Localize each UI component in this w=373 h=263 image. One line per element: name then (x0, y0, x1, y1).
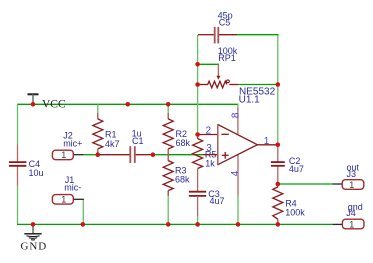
junction R2 top on VCC rail (166, 102, 171, 107)
wire J1 vertical to GND rail (82, 199, 84, 224)
junction RP1 right / feedback (276, 82, 281, 87)
wire left vertical upper (VCC rail to C4) (17, 104, 19, 145)
svg-text:mic+: mic+ (63, 139, 82, 149)
op-amp U1.1 minus sign (221, 133, 228, 135)
capacitor C2 bottom pin (277, 166, 279, 184)
resistor R5 zigzag (193, 139, 203, 169)
capacitor C2 top pin (277, 145, 279, 162)
connector J1 body (52, 195, 73, 205)
wire R2 top stub (167, 104, 169, 113)
svg-text:1: 1 (264, 136, 270, 147)
junction RP1 left (195, 82, 200, 87)
resistor R4 bottom pin (277, 219, 279, 224)
junction op-amp pin4 on GND rail (236, 222, 241, 227)
resistor R2 zigzag (163, 119, 173, 149)
power symbol VCC (28, 94, 39, 104)
resistor R3 bottom pin (167, 191, 169, 196)
junction C3 on GND rail (195, 222, 200, 227)
wire RP1 wiper horizontal (198, 63, 219, 65)
svg-text:1k: 1k (205, 159, 215, 169)
connector J1 pin line (73, 198, 84, 200)
svg-text:1: 1 (61, 195, 66, 205)
junction R3 on GND rail (166, 222, 171, 227)
svg-text:J3: J3 (347, 169, 357, 179)
wire output node to J3 (278, 183, 333, 185)
connector J2 pin line (73, 154, 83, 156)
capacitor C4 pin bottom (17, 166, 19, 185)
capacitor C1 left pin (98, 154, 129, 156)
wire op-amp pin4 to GND rail (237, 195, 239, 224)
wire VCC rail horizontal (17, 103, 238, 105)
capacitor C5 left pin (198, 34, 214, 36)
junction R4 on GND rail (276, 222, 281, 227)
svg-text:C1: C1 (132, 136, 144, 146)
svg-text:GND: GND (21, 241, 48, 253)
potentiometer RP1 wiper arrowhead (217, 76, 221, 80)
junction op-amp pin2 / R5 (195, 132, 200, 137)
op-amp U1.1 pin 3 line (203, 154, 218, 156)
op-amp U1.1 pin 4 line (237, 154, 239, 195)
potentiometer RP1 left pin (198, 84, 208, 86)
wire RP1 right to feedback (239, 84, 278, 86)
capacitor C1 plates (130, 146, 135, 163)
resistor R1 top pin (97, 113, 99, 119)
op-amp U1.1 pin 1 output line (257, 144, 277, 146)
potentiometer RP1 zigzag (208, 81, 227, 88)
resistor R2 top pin (167, 113, 169, 119)
op-amp U1.1 triangle left edge (217, 124, 219, 165)
potentiometer RP1 wiper arrow line (217, 64, 219, 76)
junction VCC symbol (31, 102, 36, 107)
op-amp U1.1 plus sign (222, 152, 229, 159)
svg-text:VCC: VCC (42, 99, 66, 111)
wire R2/R3 node to op-amp pin3 (168, 154, 203, 156)
svg-text:1: 1 (349, 180, 354, 190)
capacitor C4 pin top (17, 145, 19, 162)
wire J2 to R1 node (83, 154, 98, 156)
svg-text:U1.1: U1.1 (239, 94, 261, 105)
wire R1 top stub (97, 104, 99, 113)
resistor R3 zigzag (163, 161, 173, 191)
svg-text:RP1: RP1 (218, 53, 236, 63)
svg-text:68k: 68k (176, 138, 191, 148)
svg-text:C5: C5 (219, 18, 231, 28)
connector J3 pin line (333, 183, 343, 185)
svg-text:68k: 68k (175, 175, 190, 185)
wire feedback right vertical (C5/RP1 to output node) (277, 35, 279, 145)
junction J2 / R1 / C1 (96, 152, 101, 157)
wire pin8 top stub (237, 104, 239, 108)
junction C2 / R4 / J3 (276, 182, 281, 187)
svg-text:3: 3 (206, 143, 212, 154)
capacitor C2 plates (271, 162, 285, 166)
op-amp U1.1 pin 8 line (237, 108, 239, 135)
wire C5 right horizontal (237, 34, 279, 36)
op-amp U1.1 triangle body (218, 125, 258, 165)
svg-text:R1: R1 (105, 130, 117, 140)
svg-text:2: 2 (206, 126, 212, 137)
connector J2 body (52, 150, 73, 160)
resistor R1 zigzag (93, 119, 103, 149)
potentiometer RP1 wiper terminal circle (227, 80, 230, 83)
svg-text:4k7: 4k7 (105, 139, 120, 149)
resistor R2 bottom pin (167, 149, 169, 155)
svg-text:10u: 10u (29, 168, 44, 178)
potentiometer RP1 right pin (229, 84, 238, 86)
capacitor C4 plates (9, 162, 27, 166)
capacitor C5 plates (215, 27, 219, 44)
wire R3 bottom vertical (167, 192, 169, 225)
wire left vertical lower (C4 to GND rail) (17, 185, 19, 224)
op-amp U1.1 pin 2 line (198, 134, 218, 136)
capacitor C3 bottom pin (197, 196, 199, 216)
svg-text:mic-: mic- (64, 183, 81, 193)
junction output / feedback / C2 (276, 143, 281, 148)
junction RP1 wiper tap (195, 62, 200, 67)
ground symbol GND (24, 224, 41, 240)
junction on VCC rail (mid) (126, 102, 131, 107)
junction GND symbol (31, 222, 36, 227)
wire GND rail horizontal (17, 223, 333, 225)
svg-text:1: 1 (349, 219, 354, 229)
resistor R4 zigzag (273, 187, 283, 219)
wire C1 right to R2/R3 node (153, 154, 168, 156)
resistor R1 bottom pin (97, 149, 99, 155)
capacitor C3 plates (189, 192, 206, 196)
capacitor C1 right pin (136, 154, 153, 156)
svg-text:J4: J4 (346, 208, 356, 218)
resistor R5 top pin (197, 135, 199, 139)
resistor R4 top pin (277, 184, 279, 187)
wire C3 bottom to GND rail (197, 216, 199, 224)
connector J3 body (342, 180, 364, 190)
wire feedback left vertical (C5/RP1 to op-amp pin2 node) (197, 35, 199, 135)
svg-text:4: 4 (230, 170, 241, 176)
svg-text:8: 8 (231, 112, 242, 118)
connector J4 body (342, 219, 364, 229)
resistor R5 bottom pin (to C3) (197, 169, 199, 192)
resistor R3 top pin (167, 155, 169, 161)
svg-text:100k: 100k (285, 208, 305, 218)
svg-text:1: 1 (61, 150, 66, 160)
junction J1 on GND rail (81, 222, 86, 227)
svg-text:4u7: 4u7 (289, 164, 304, 174)
capacitor C5 right pin (219, 34, 237, 36)
connector J4 pin line (333, 223, 343, 225)
junction C1 right (151, 152, 156, 157)
svg-text:4u7: 4u7 (210, 196, 225, 206)
